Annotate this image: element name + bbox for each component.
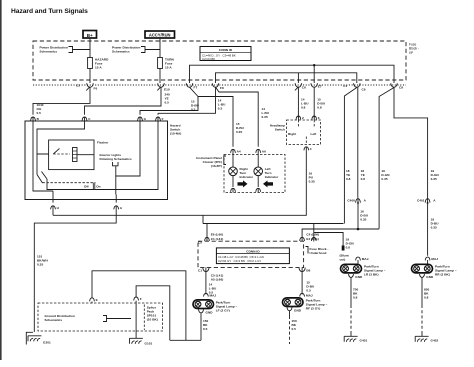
svg-text:C400: C400 — [347, 199, 355, 203]
hazard switch internal: switch blade — [37, 175, 43, 184]
svg-text:4: 4 — [310, 147, 312, 151]
svg-text:On: On — [96, 185, 100, 189]
wire line2 C4 pin to 19 D-GN with junction — [302, 228, 379, 241]
svg-text:CONN ID: CONN ID — [246, 249, 260, 253]
LR ground pin — [349, 274, 364, 331]
svg-text:0.5: 0.5 — [37, 111, 42, 115]
svg-text:E10: E10 — [164, 87, 170, 91]
junction E7 riser on bus A — [313, 64, 315, 83]
pin H arrow — [51, 206, 60, 210]
label Instrument Panel Cluster (IPC) (16-BT) — [196, 156, 226, 168]
svg-text:F: F — [140, 297, 142, 301]
svg-text:(10-NA): (10-NA) — [170, 131, 181, 135]
connector F7 — [186, 83, 197, 89]
svg-text:LR (3 BK): LR (3 BK) — [364, 273, 379, 277]
svg-text:Switch: Switch — [275, 127, 285, 131]
svg-text:Right: Right — [288, 132, 296, 136]
wire F7 to hazard switch pin G — [140, 87, 198, 115]
svg-text:0.35: 0.35 — [360, 218, 366, 222]
svg-text:0.8: 0.8 — [353, 295, 358, 299]
svg-text:A6: A6 — [262, 150, 266, 154]
label 18 YE 0.8 (right) — [361, 169, 366, 181]
wire F7 branch to IPC pin A4 — [198, 97, 233, 147]
LF ground pin — [199, 309, 214, 340]
fuse block I/P dashed box — [33, 41, 406, 80]
flasher box — [49, 140, 110, 170]
svg-text:GND: GND — [294, 308, 302, 312]
connector C9 (fuse block far right) — [391, 83, 404, 89]
svg-text:Underhood: Underhood — [310, 251, 327, 255]
svg-text:0.8: 0.8 — [317, 105, 322, 109]
blunt cut terminal — [340, 246, 349, 262]
svg-text:F7: F7 — [194, 85, 198, 89]
svg-text:MAJ: MAJ — [362, 257, 369, 261]
wire B+ to hazard fuse — [89, 38, 91, 58]
svg-text:Flasher: Flasher — [97, 140, 109, 144]
svg-text:0.5: 0.5 — [203, 327, 208, 331]
label 240 YE 0.5 — [165, 92, 171, 104]
svg-text:0.5: 0.5 — [191, 107, 196, 111]
svg-text:G401: G401 — [360, 338, 368, 342]
wire hazard bus T-riser to underhood feed line — [202, 215, 204, 223]
hazard switch internal: blade 2 — [42, 172, 48, 180]
label 19 D-BU 0.35 (below C401) — [431, 218, 440, 230]
svg-text:E4 (L41): E4 (L41) — [306, 237, 318, 241]
label 15 D-BU 0.5 — [191, 99, 200, 111]
lamp RF park/turn — [283, 293, 328, 310]
svg-text:0.8: 0.8 — [346, 245, 351, 249]
svg-text:(16-BT): (16-BT) — [211, 164, 222, 168]
right indicator arrow glyph — [238, 180, 248, 187]
hazard switch internal: pin A stub — [115, 195, 117, 203]
pin A arrow — [114, 206, 123, 210]
svg-text:0.35: 0.35 — [236, 130, 242, 134]
label 19 D-GN 0.8 — [346, 237, 355, 249]
svg-text:G201: G201 — [43, 341, 51, 345]
svg-text:G101: G101 — [145, 342, 153, 346]
svg-text:0.5: 0.5 — [165, 100, 170, 104]
svg-text:B6: B6 — [306, 268, 310, 272]
svg-text:F8: F8 — [220, 86, 224, 90]
headlamp switch internals — [288, 120, 316, 145]
left turn indicator lamp — [254, 155, 279, 179]
svg-text:0.5: 0.5 — [218, 107, 223, 111]
page left border frame — [0, 0, 2, 360]
wire pin A drop to ground branch — [34, 215, 116, 332]
RF ground pin with dashed off-page wire — [287, 307, 302, 344]
svg-text:C2=24 BK: C2=24 BK — [202, 57, 215, 61]
wire line1 to underhood top pins and YE riser — [203, 224, 344, 240]
Off / On switch labels — [84, 183, 101, 190]
svg-text:GND: GND — [206, 310, 214, 314]
wire E10 to hazard switch pin C — [85, 87, 162, 115]
ground distribution dashed box — [38, 303, 163, 331]
splice feed wire F — [136, 286, 170, 341]
pin F arrow — [156, 117, 164, 121]
internal bus line A (F7 to C9) — [190, 65, 395, 83]
svg-text:0.35: 0.35 — [381, 177, 387, 181]
wire C9 straight branch to C401 — [394, 87, 428, 197]
internal bus line B (F8 to C1) — [216, 73, 357, 83]
hazard switch internal: linkage dashes — [43, 182, 96, 184]
right indicator ground pin — [231, 176, 236, 193]
node B+ (battery feed box) — [83, 31, 97, 39]
left indicator arrow glyph — [263, 180, 273, 187]
connector C6 — [295, 83, 306, 90]
svg-text:C1: C1 — [198, 268, 202, 272]
svg-text:15 A: 15 A — [165, 66, 172, 70]
svg-text:2: 2 — [302, 116, 304, 120]
wire hazard fuse to connector C3/F6 — [89, 69, 91, 84]
svg-text:MAJ: MAJ — [431, 257, 438, 261]
wire stub pin F tap — [157, 113, 159, 115]
svg-text:C1: C1 — [343, 84, 347, 88]
svg-text:C9: C9 — [362, 88, 366, 92]
IPC dashed box — [224, 155, 285, 193]
svg-text:0.5: 0.5 — [306, 289, 311, 293]
svg-text:0.35: 0.35 — [262, 115, 268, 119]
headlamp pin 4 arrow — [304, 147, 312, 151]
hazard switch internal: pin F wire — [47, 121, 158, 190]
headlamp pin 6 arrow — [312, 116, 320, 120]
RR ground pin — [420, 274, 435, 331]
label Power Distribution Schematics (left) — [40, 46, 91, 54]
wire F6 to hazard switch pin B — [33, 87, 90, 115]
splice feed wire E — [92, 271, 186, 341]
wire F8 branch to IPC pin A6 — [216, 87, 259, 147]
headlamp pin 2 arrow — [296, 116, 304, 120]
hazard switch internal: pin G wire — [116, 121, 140, 176]
label 16 D-BU 0.35 — [360, 210, 369, 222]
connector F8 — [212, 83, 224, 90]
underhood bottom connector C1 — [198, 267, 223, 294]
svg-text:E: E — [96, 298, 98, 302]
label 151 BK/WH 0.35 — [37, 254, 48, 266]
svg-text:Schematics: Schematics — [112, 50, 130, 54]
pin B arrow — [31, 117, 40, 121]
svg-text:GND: GND — [355, 275, 363, 279]
wire E7 to headlamp switch pin 6 — [313, 87, 315, 118]
svg-text:0.5: 0.5 — [292, 327, 297, 331]
label 1040 OG 0.5 — [37, 103, 44, 115]
underhood top pin C4/E4 — [300, 233, 319, 242]
flasher internal contact and coil — [37, 148, 94, 162]
svg-text:C6: C6 — [302, 86, 306, 90]
svg-text:0.35: 0.35 — [309, 179, 315, 183]
wire C1 straight branch (18 YE right) to C400 — [357, 87, 359, 197]
wire turn fuse to connector E10 — [159, 69, 161, 84]
label 14 L-BU 0.5 — [218, 99, 226, 111]
connector C401 pin A — [417, 198, 436, 256]
CONN ID table (underhood) — [216, 248, 289, 264]
wire ACCY/RUN to turn fuse — [159, 38, 161, 58]
svg-text:Indicator: Indicator — [240, 175, 254, 179]
svg-text:(10 BK): (10 BK) — [147, 317, 158, 321]
svg-text:C1 (L61): C1 (L61) — [211, 237, 224, 241]
pin C arrow — [82, 117, 91, 121]
lamp LR park/turn — [341, 257, 386, 276]
diagram title — [11, 8, 88, 15]
ground G201 with bracket — [26, 332, 51, 344]
svg-text:GND: GND — [426, 275, 434, 279]
label Power Distribution Schematics (right) — [112, 46, 160, 54]
label 14 L-BU 0.35 (A6 wire) — [262, 107, 270, 119]
connector C3/F6 — [76, 83, 98, 90]
svg-text:0.8: 0.8 — [346, 177, 351, 181]
svg-text:B+: B+ — [87, 33, 93, 38]
svg-text:Dimming Schematics: Dimming Schematics — [100, 157, 132, 161]
svg-text:6: 6 — [318, 116, 320, 120]
underhood bottom connector B6 — [299, 267, 315, 294]
pin E arrow — [90, 298, 98, 304]
label 16 PU 0.35 — [309, 171, 315, 183]
svg-text:C401: C401 — [417, 199, 425, 203]
label 14 L-BU 0.8 — [301, 97, 309, 109]
svg-text:RR (3 BK): RR (3 BK) — [435, 273, 450, 277]
svg-text:CONN ID: CONN ID — [219, 48, 233, 52]
label 15 D-BU 0.8 — [317, 97, 326, 109]
splice pack SP101 — [136, 304, 158, 339]
svg-text:C3: C3 — [76, 83, 80, 87]
hazard switch internal: pin B wire to flasher bottom — [33, 121, 53, 191]
headlamp switch dashed box — [270, 120, 321, 145]
svg-text:C5: C5 — [198, 241, 202, 245]
connector C1 (fuse block right) — [343, 83, 366, 91]
label 18 YE 0.8 (left) — [346, 169, 351, 181]
svg-text:15 A: 15 A — [95, 66, 102, 70]
label Fuse Block - I/P — [409, 43, 419, 55]
svg-text:C2=64 GY C4=2 BN C6=2 L-GY: C2=64 GY C4=2 BN C6=2 L-GY — [218, 259, 261, 263]
svg-text:Left: Left — [311, 132, 317, 136]
svg-text:0.8: 0.8 — [424, 295, 429, 299]
svg-text:0.35: 0.35 — [431, 226, 437, 230]
fuse block underhood dashed box — [198, 241, 329, 267]
fuse HAZARD 15A — [88, 58, 109, 70]
left indicator ground pin — [256, 176, 261, 193]
svg-text:A4: A4 — [237, 150, 241, 154]
node ACCY/RUN (ignition feed box) — [145, 31, 175, 38]
connector E10 — [157, 83, 170, 91]
connector E7 — [311, 83, 322, 88]
pin A6 arrow — [256, 149, 266, 154]
svg-text:Indicator: Indicator — [265, 175, 279, 179]
svg-text:Schematics: Schematics — [40, 50, 58, 54]
svg-text:C9: C9 — [399, 85, 403, 89]
svg-text:ACCY/RUN: ACCY/RUN — [149, 33, 171, 38]
right turn indicator lamp — [229, 155, 254, 179]
wire C6 to headlamp switch pin 2 — [297, 87, 299, 118]
pin F arrow (splice) — [134, 297, 142, 304]
svg-text:0.35: 0.35 — [431, 177, 437, 181]
svg-text:RF (3 GY): RF (3 GY) — [306, 306, 321, 310]
svg-text:E7: E7 — [318, 85, 322, 89]
ground G401 — [344, 331, 367, 342]
pin G arrow — [138, 117, 147, 121]
ground G402 — [415, 331, 438, 342]
wire F8 to hazard switch pin F — [158, 87, 216, 113]
svg-text:0.8: 0.8 — [361, 177, 366, 181]
fuse TURN 15A — [158, 58, 175, 70]
label 19 D-GN 0.35 (left) — [381, 169, 390, 181]
lamp RR park/turn — [412, 257, 457, 276]
hazard switch internal: pin H stub — [52, 191, 54, 203]
pin A4 arrow — [231, 149, 241, 154]
hazard switch U1 box — [25, 121, 181, 200]
ground G101 — [130, 338, 153, 345]
svg-text:MAJ: MAJ — [210, 294, 217, 298]
lamp LF park/turn — [193, 293, 238, 312]
svg-text:Hazard and Turn Signals: Hazard and Turn Signals — [11, 8, 88, 15]
fuse block I/P connector face dotted line — [33, 84, 406, 86]
svg-text:MAJ: MAJ — [306, 294, 313, 298]
svg-text:cut): cut) — [340, 258, 346, 262]
hazard output bus H-A to headlamp pin 4 — [53, 151, 306, 216]
svg-text:A5 (L66): A5 (L66) — [211, 278, 224, 282]
svg-text:G402: G402 — [431, 338, 439, 342]
svg-text:0.35: 0.35 — [37, 262, 43, 266]
wire C1 diagonal branch (18 YE left) — [344, 88, 356, 224]
label 15 D-BU 0.35 (A4 wire) — [236, 122, 245, 134]
CONN ID table (fuse block I/P) — [200, 47, 251, 62]
svg-text:0.8: 0.8 — [301, 105, 306, 109]
underhood top pin E6/C1 — [198, 233, 223, 245]
connector C400 pin A — [347, 198, 366, 229]
wire C9 diagonal branch (19 D-GN) — [379, 88, 394, 229]
LF ground bus — [170, 339, 201, 341]
svg-text:F6: F6 — [94, 86, 98, 90]
riser C6 on bus B — [297, 73, 299, 83]
svg-text:F: F — [162, 117, 164, 121]
wire line3 to blunt cut stub — [314, 233, 343, 247]
hazard switch internal: dimming feed wire — [115, 166, 117, 195]
svg-text:Schematics: Schematics — [45, 318, 63, 322]
label 19 D-GN 0.35 (right) — [431, 169, 440, 181]
hazard switch internal: pin C feed to contact — [37, 121, 85, 175]
label Interior Lights Dimming Schematics with bracket — [100, 153, 132, 166]
svg-text:LF (2 GY): LF (2 GY) — [216, 308, 230, 312]
